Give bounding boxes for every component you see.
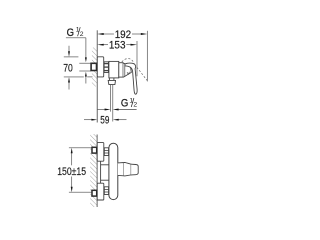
svg-text:2: 2 — [133, 102, 137, 109]
svg-text:59: 59 — [100, 115, 109, 127]
svg-text:2: 2 — [80, 31, 84, 38]
svg-text:153: 153 — [109, 40, 126, 52]
svg-text:70: 70 — [63, 63, 72, 75]
svg-text:150±15: 150±15 — [57, 166, 86, 178]
svg-text:G: G — [121, 98, 128, 110]
svg-text:G: G — [67, 27, 74, 39]
